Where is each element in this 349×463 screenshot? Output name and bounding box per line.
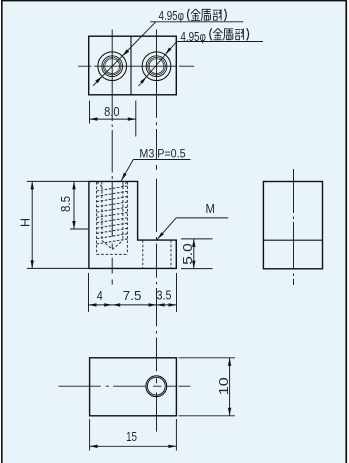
svg-text:M3 P=0.5: M3 P=0.5: [139, 149, 185, 161]
svg-text:15: 15: [126, 429, 137, 444]
svg-text:5.0: 5.0: [180, 243, 195, 265]
svg-text:4.95φ: 4.95φ: [159, 8, 185, 23]
svg-text:10: 10: [216, 377, 231, 395]
svg-text:4: 4: [97, 288, 103, 303]
svg-text:M: M: [206, 201, 216, 216]
svg-text:4.95φ: 4.95φ: [180, 29, 206, 44]
svg-text:8.5: 8.5: [58, 196, 73, 212]
svg-text:8.0: 8.0: [104, 104, 119, 119]
svg-text:H: H: [18, 218, 33, 227]
svg-text:3.5: 3.5: [157, 288, 172, 303]
svg-text:7.5: 7.5: [123, 288, 142, 303]
